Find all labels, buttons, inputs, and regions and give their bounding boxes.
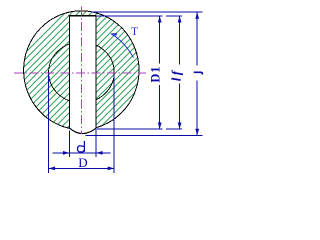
thread leader line T (111, 34, 134, 58)
dimension line d (53, 152, 111, 154)
bottom extension line for D1/lf (97, 128, 163, 130)
hole ceiling flat (69, 15, 97, 17)
label d (78, 141, 85, 152)
inner spherical recess circle (49, 42, 115, 103)
d arrows (outside) (63, 151, 70, 155)
label l (rotated) (194, 72, 203, 74)
extension line d right (95, 128, 97, 157)
bottom extension line for l (86, 135, 203, 137)
drill exit curve at sphere bottom (69, 128, 96, 134)
bore hole interior (blank) (70, 16, 96, 134)
horizontal centerline (14, 72, 146, 74)
leader arrowhead (110, 33, 117, 36)
dimension line l (196, 12, 198, 65)
lf arrows (178, 16, 182, 23)
section hatching (0, 0, 260, 140)
top extension line for l (91, 11, 203, 13)
dimension line lf (179, 16, 181, 65)
D arrows (inside, pointing out) (49, 167, 56, 171)
sphere outline (24, 11, 139, 130)
svg-text:D: D (78, 155, 87, 170)
dimension line D1 (159, 16, 161, 64)
top extension line for D1/lf (97, 15, 163, 17)
svg-text:T: T (131, 26, 138, 38)
hole wall left (68, 16, 70, 129)
vertical centerline (80, 7, 82, 135)
extension line d left (68, 131, 70, 158)
arrowheads (navy) (49, 12, 200, 170)
dimension line D (49, 167, 115, 169)
l arrows (195, 12, 199, 19)
hole wall right (95, 16, 97, 129)
svg-text:D1: D1 (149, 66, 163, 83)
extension line D left (48, 75, 50, 173)
extension line D right (113, 75, 115, 173)
D1 arrows (158, 16, 162, 23)
svg-text:lf: lf (168, 69, 183, 82)
